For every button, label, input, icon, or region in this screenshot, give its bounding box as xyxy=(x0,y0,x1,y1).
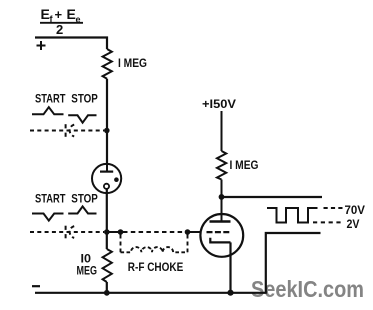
dashed coupling line (lower) xyxy=(30,231,104,233)
stop trigger waveform positive pulse (lower) xyxy=(68,206,96,213)
svg-text:+I50V: +I50V xyxy=(202,97,236,111)
dashed coupling line (upper) xyxy=(30,130,104,132)
wire plate output horizontal xyxy=(222,196,323,198)
svg-text:2: 2 xyxy=(56,22,63,37)
svg-text:I MEG: I MEG xyxy=(118,56,147,70)
resistor R1 1 MEG xyxy=(103,49,112,79)
svg-text:STOP: STOP xyxy=(71,92,98,106)
node junction B (lower dashed line to wire) xyxy=(104,229,110,235)
wire left vertical bottom section xyxy=(106,282,108,293)
stop trigger waveform negative pulse (upper) xyxy=(68,115,96,122)
label (Ef+Ee)/2 xyxy=(40,6,83,37)
output square wave xyxy=(267,208,318,223)
svg-text:I MEG: I MEG xyxy=(230,158,259,172)
inductor L1 R-F choke (dashed alternative path) xyxy=(121,235,188,253)
leader dashes to 2V xyxy=(313,221,343,223)
minus polarity mark xyxy=(32,285,40,287)
wire lower output with corner down xyxy=(266,233,321,293)
wire grid feed solid segment left xyxy=(107,231,121,233)
node junction G (cathode to bus) xyxy=(227,290,233,296)
triode tube V2 xyxy=(200,197,243,257)
svg-text:SeekIC.com: SeekIC.com xyxy=(251,276,364,302)
watermark SeekIC.com xyxy=(251,276,364,302)
svg-text:START: START xyxy=(35,92,66,106)
stray capacitor C2 (dashed) xyxy=(66,226,75,239)
wire top horizontal with corner xyxy=(35,38,107,50)
svg-text:R-F CHOKE: R-F CHOKE xyxy=(128,260,184,274)
stray capacitor C1 (dashed) xyxy=(66,124,75,137)
svg-text:STOP: STOP xyxy=(71,192,98,206)
leader dashes to 70V xyxy=(324,207,343,209)
wire R3 to plate node xyxy=(221,180,223,198)
resistor R3 1 MEG (plate load) xyxy=(217,151,226,180)
wire +150V supply down xyxy=(221,111,223,151)
svg-text:START: START xyxy=(35,192,66,206)
svg-text:MEG: MEG xyxy=(77,264,98,278)
node junction C (choke left) xyxy=(118,229,124,235)
start trigger waveform negative pulse (lower) xyxy=(32,214,64,221)
node junction D (choke right) xyxy=(185,229,191,235)
svg-text:E: E xyxy=(67,6,76,22)
resistor R2 10 MEG xyxy=(103,249,112,282)
wire grid feed solid segment right xyxy=(188,231,202,233)
label 10 MEG (R2) xyxy=(77,252,98,278)
node junction E (plate node) xyxy=(219,194,225,200)
wire left vertical middle section (V1 cathode to lower node) xyxy=(106,189,108,249)
plus polarity mark xyxy=(37,41,46,50)
svg-text:70V: 70V xyxy=(345,203,366,217)
wire cathode lead down to bus xyxy=(229,242,231,293)
node junction F (R2 to bus) xyxy=(104,290,110,296)
ground bus (negative rail) xyxy=(35,292,267,294)
wire grid feed dashed segment xyxy=(123,231,186,233)
svg-text:E: E xyxy=(41,6,50,22)
svg-text:+: + xyxy=(55,7,63,22)
start trigger waveform positive pulse (upper) xyxy=(32,107,64,114)
gas diode tube V1 xyxy=(92,164,121,193)
node junction A (upper dashed line to wire) xyxy=(104,128,110,134)
svg-text:2V: 2V xyxy=(347,217,360,231)
wire left vertical upper section xyxy=(106,79,108,165)
